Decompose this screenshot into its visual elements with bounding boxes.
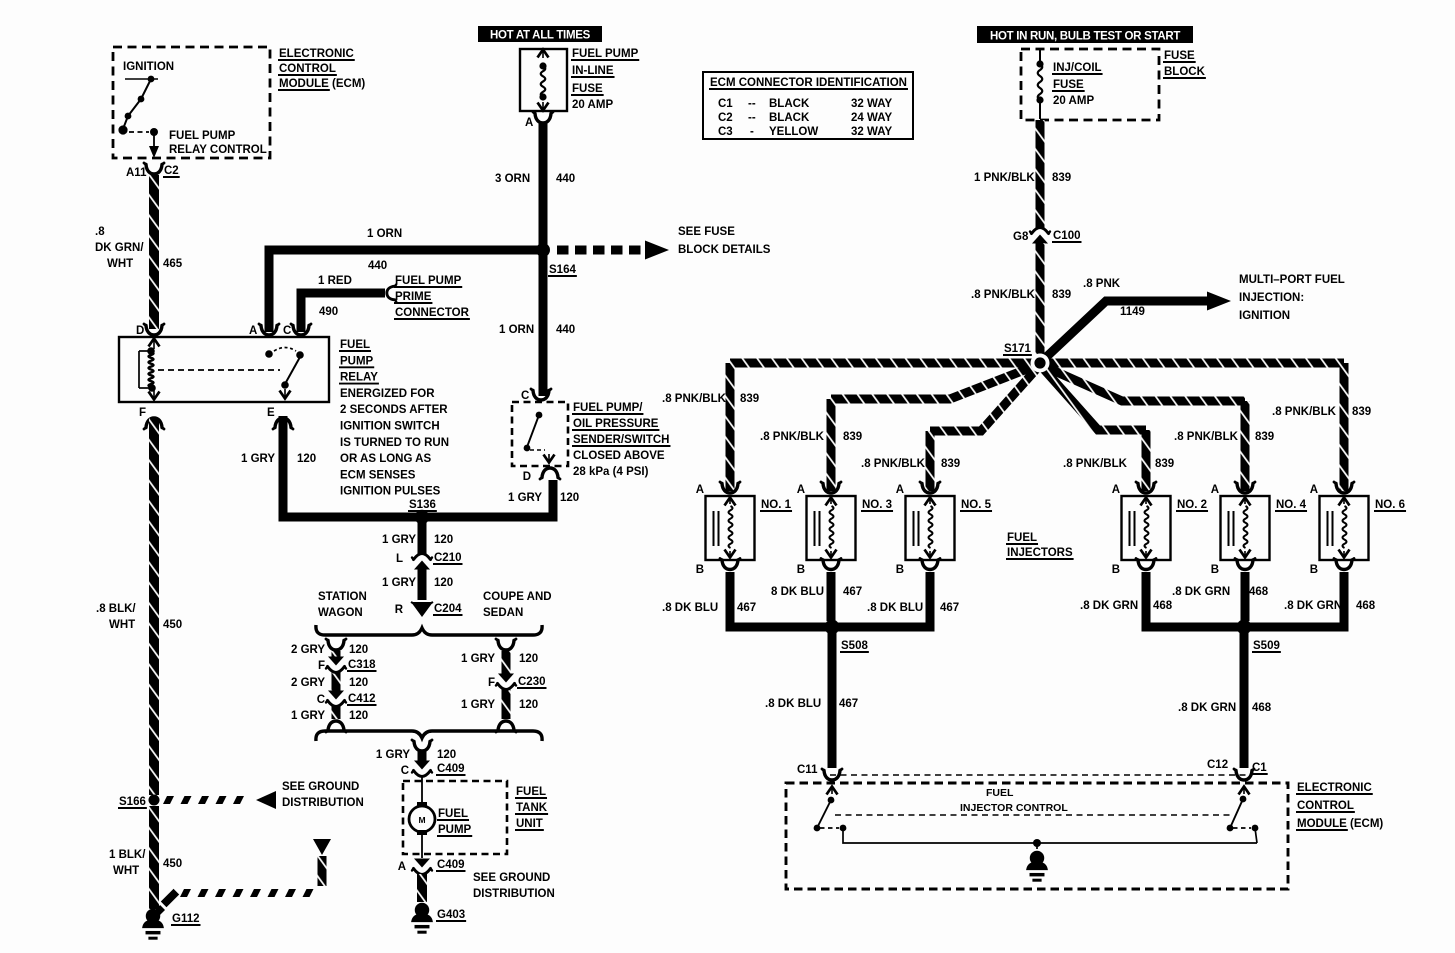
svg-text:S136: S136 — [409, 499, 436, 511]
svg-text:A: A — [696, 484, 704, 496]
svg-text:HOT IN RUN, BULB TEST OR START: HOT IN RUN, BULB TEST OR START — [990, 31, 1180, 43]
svg-text:1 GRY: 1 GRY — [291, 710, 325, 722]
svg-text:440: 440 — [556, 324, 575, 336]
svg-text:INJECTORS: INJECTORS — [1007, 547, 1073, 559]
svg-text:1 GRY: 1 GRY — [382, 534, 416, 546]
svg-text:STATION: STATION — [318, 591, 367, 603]
svg-text:PUMP: PUMP — [438, 824, 472, 836]
svg-text:467: 467 — [843, 586, 862, 598]
svg-text:839: 839 — [1352, 406, 1371, 418]
svg-text:FUSE: FUSE — [572, 83, 603, 95]
svg-text:.8 PNK: .8 PNK — [1083, 278, 1121, 290]
svg-text:468: 468 — [1356, 600, 1376, 612]
svg-text:NO. 2: NO. 2 — [1177, 499, 1207, 511]
svg-text:BLOCK DETAILS: BLOCK DETAILS — [678, 244, 771, 256]
svg-text:839: 839 — [740, 393, 759, 405]
svg-text:839: 839 — [941, 458, 960, 470]
svg-text:WHT: WHT — [109, 619, 135, 631]
svg-text:B: B — [1112, 564, 1120, 576]
svg-text:32 WAY: 32 WAY — [851, 98, 892, 110]
svg-text:NO. 4: NO. 4 — [1276, 499, 1307, 511]
svg-text:1 ORN: 1 ORN — [367, 228, 402, 240]
svg-text:120: 120 — [519, 653, 538, 665]
svg-text:490: 490 — [319, 306, 338, 318]
svg-text:INJECTION:: INJECTION: — [1239, 292, 1304, 304]
svg-text:SEE GROUND: SEE GROUND — [282, 781, 359, 793]
svg-text:20 AMP: 20 AMP — [572, 99, 613, 111]
svg-text:MODULE: MODULE — [279, 78, 329, 90]
svg-text:D: D — [136, 325, 144, 337]
svg-text:COUPE AND: COUPE AND — [483, 591, 552, 603]
svg-text:BLOCK: BLOCK — [1164, 66, 1206, 78]
svg-text:1 GRY: 1 GRY — [376, 749, 410, 761]
svg-text:IN-LINE: IN-LINE — [572, 65, 614, 77]
svg-text:2 GRY: 2 GRY — [291, 677, 325, 689]
svg-text:CONTROL: CONTROL — [279, 63, 336, 75]
svg-text:8 DK BLU: 8 DK BLU — [771, 586, 824, 598]
svg-text:MULTI–PORT FUEL: MULTI–PORT FUEL — [1239, 274, 1345, 286]
svg-text:ECM CONNECTOR IDENTIFICATION: ECM CONNECTOR IDENTIFICATION — [710, 77, 907, 89]
svg-text:FUEL PUMP: FUEL PUMP — [572, 48, 639, 60]
svg-text:120: 120 — [349, 677, 368, 689]
svg-text:RELAY: RELAY — [340, 372, 378, 384]
svg-text:.8 PNK/BLK: .8 PNK/BLK — [1272, 406, 1337, 418]
svg-text:B: B — [1310, 564, 1318, 576]
svg-text:G8: G8 — [1013, 231, 1029, 243]
svg-text:E: E — [267, 407, 275, 419]
svg-text:S508: S508 — [841, 640, 868, 652]
svg-text:BLACK: BLACK — [769, 112, 810, 124]
svg-text:.8 PNK/BLK: .8 PNK/BLK — [760, 431, 825, 443]
svg-text:1 GRY: 1 GRY — [241, 453, 275, 465]
svg-text:NO. 1: NO. 1 — [761, 499, 792, 511]
svg-text:C12: C12 — [1207, 759, 1228, 771]
svg-text:839: 839 — [843, 431, 862, 443]
svg-text:WHT: WHT — [113, 865, 139, 877]
svg-text:FUEL PUMP: FUEL PUMP — [395, 275, 462, 287]
svg-text:S171: S171 — [1004, 343, 1031, 355]
svg-text:FUEL: FUEL — [986, 787, 1014, 799]
svg-text:.8 PNK/BLK: .8 PNK/BLK — [1063, 458, 1128, 470]
svg-text:IGNITION SWITCH: IGNITION SWITCH — [340, 421, 440, 433]
svg-text:(ECM): (ECM) — [332, 78, 365, 90]
svg-text:F: F — [318, 660, 325, 672]
svg-text:IS TURNED TO RUN: IS TURNED TO RUN — [340, 437, 449, 449]
svg-text:ECM SENSES: ECM SENSES — [340, 469, 416, 481]
svg-text:.8 PNK/BLK: .8 PNK/BLK — [662, 393, 727, 405]
svg-text:NO. 5: NO. 5 — [961, 499, 992, 511]
svg-text:--: -- — [748, 112, 756, 124]
svg-text:C11: C11 — [797, 764, 818, 776]
svg-text:C3: C3 — [718, 126, 733, 138]
svg-text:.8 DK BLU: .8 DK BLU — [662, 602, 718, 614]
svg-text:INJECTOR CONTROL: INJECTOR CONTROL — [960, 802, 1068, 814]
svg-text:OIL PRESSURE: OIL PRESSURE — [573, 418, 659, 430]
svg-text:FUEL PUMP: FUEL PUMP — [169, 130, 236, 142]
svg-text:.8 PNK/BLK: .8 PNK/BLK — [861, 458, 926, 470]
svg-text:SENDER/SWITCH: SENDER/SWITCH — [573, 434, 669, 446]
svg-text:TANK: TANK — [516, 802, 548, 814]
svg-text:24 WAY: 24 WAY — [851, 112, 892, 124]
svg-text:WAGON: WAGON — [318, 607, 363, 619]
svg-text:C: C — [283, 325, 291, 337]
svg-text:1 GRY: 1 GRY — [461, 653, 495, 665]
svg-text:A: A — [1211, 484, 1219, 496]
svg-text:1 GRY: 1 GRY — [508, 492, 542, 504]
svg-text:120: 120 — [434, 577, 453, 589]
svg-text:FUSE: FUSE — [1053, 79, 1084, 91]
svg-text:468: 468 — [1153, 600, 1173, 612]
svg-text:2 SECONDS AFTER: 2 SECONDS AFTER — [340, 404, 448, 416]
svg-text:C2: C2 — [164, 165, 179, 177]
svg-text:A: A — [1112, 484, 1120, 496]
svg-text:SEE FUSE: SEE FUSE — [678, 226, 735, 238]
svg-text:120: 120 — [437, 749, 456, 761]
svg-text:C100: C100 — [1053, 230, 1081, 242]
svg-text:FUSE: FUSE — [1164, 50, 1195, 62]
svg-text:.8 DK GRN: .8 DK GRN — [1172, 586, 1230, 598]
svg-text:467: 467 — [839, 698, 858, 710]
svg-text:467: 467 — [737, 602, 756, 614]
svg-text:1149: 1149 — [1120, 306, 1145, 318]
svg-text:FUEL: FUEL — [438, 808, 468, 820]
svg-text:467: 467 — [940, 602, 959, 614]
svg-text:468: 468 — [1249, 586, 1269, 598]
svg-text:28 kPa (4 PSI): 28 kPa (4 PSI) — [573, 466, 649, 478]
svg-text:C412: C412 — [348, 693, 376, 705]
svg-text:1 GRY: 1 GRY — [382, 577, 416, 589]
svg-text:.8 DK BLU: .8 DK BLU — [765, 698, 821, 710]
svg-text:INJ/COIL: INJ/COIL — [1053, 62, 1102, 74]
svg-text:S166: S166 — [119, 796, 146, 808]
svg-text:450: 450 — [163, 858, 182, 870]
svg-text:120: 120 — [434, 534, 453, 546]
svg-text:.8 PNK/BLK: .8 PNK/BLK — [1174, 431, 1239, 443]
svg-text:IGNITION: IGNITION — [123, 61, 174, 73]
svg-text:IGNITION PULSES: IGNITION PULSES — [340, 486, 441, 498]
svg-text:B: B — [896, 564, 904, 576]
svg-text:1 PNK/BLK: 1 PNK/BLK — [974, 172, 1035, 184]
svg-text:A11: A11 — [126, 167, 147, 179]
svg-text:IGNITION: IGNITION — [1239, 310, 1290, 322]
svg-text:DISTRIBUTION: DISTRIBUTION — [282, 797, 364, 809]
svg-text:DK GRN/: DK GRN/ — [95, 242, 144, 254]
svg-text:RELAY CONTROL: RELAY CONTROL — [169, 144, 267, 156]
svg-text:1 RED: 1 RED — [318, 275, 352, 287]
svg-text:ELECTRONIC: ELECTRONIC — [279, 48, 354, 60]
svg-text:M: M — [418, 815, 425, 825]
svg-text:120: 120 — [349, 710, 368, 722]
svg-text:C318: C318 — [348, 659, 376, 671]
svg-text:C: C — [521, 390, 529, 402]
svg-text:1 GRY: 1 GRY — [461, 699, 495, 711]
svg-text:PRIME: PRIME — [395, 291, 432, 303]
svg-text:S509: S509 — [1253, 640, 1280, 652]
svg-text:839: 839 — [1052, 289, 1071, 301]
svg-text:S164: S164 — [549, 264, 576, 276]
svg-text:C210: C210 — [434, 552, 462, 564]
svg-text:B: B — [1211, 564, 1219, 576]
svg-text:L: L — [396, 553, 403, 565]
svg-text:.8 DK GRN: .8 DK GRN — [1284, 600, 1342, 612]
svg-text:CONTROL: CONTROL — [1297, 800, 1354, 812]
svg-text:440: 440 — [368, 260, 387, 272]
svg-text:120: 120 — [297, 453, 316, 465]
svg-text:120: 120 — [519, 699, 538, 711]
svg-text:A: A — [249, 325, 257, 337]
svg-text:F: F — [488, 677, 495, 689]
svg-text:B: B — [696, 564, 704, 576]
svg-text:UNIT: UNIT — [516, 818, 543, 830]
svg-text:2 GRY: 2 GRY — [291, 644, 325, 656]
svg-text:-: - — [750, 126, 754, 138]
svg-text:.8 BLK/: .8 BLK/ — [96, 603, 136, 615]
svg-text:C: C — [317, 694, 325, 706]
svg-text:.8 DK GRN: .8 DK GRN — [1080, 600, 1138, 612]
svg-text:SEDAN: SEDAN — [483, 607, 523, 619]
svg-text:839: 839 — [1255, 431, 1274, 443]
svg-text:C: C — [401, 765, 409, 777]
svg-text:C2: C2 — [718, 112, 733, 124]
svg-text:MODULE: MODULE — [1297, 818, 1347, 830]
svg-text:D: D — [523, 471, 531, 483]
svg-text:BLACK: BLACK — [769, 98, 810, 110]
svg-text:CLOSED ABOVE: CLOSED ABOVE — [573, 450, 665, 462]
svg-text:OR AS LONG AS: OR AS LONG AS — [340, 453, 431, 465]
svg-text:A: A — [525, 117, 533, 129]
svg-text:.8 DK GRN: .8 DK GRN — [1178, 702, 1236, 714]
svg-text:(ECM): (ECM) — [1350, 818, 1383, 830]
svg-text:A: A — [398, 861, 406, 873]
svg-text:.8 PNK/BLK: .8 PNK/BLK — [971, 289, 1036, 301]
svg-text:3 ORN: 3 ORN — [495, 173, 530, 185]
svg-text:NO. 6: NO. 6 — [1375, 499, 1405, 511]
svg-text:B: B — [797, 564, 805, 576]
svg-text:FUEL: FUEL — [340, 339, 370, 351]
svg-text:F: F — [139, 407, 146, 419]
svg-text:C204: C204 — [434, 603, 462, 615]
svg-text:--: -- — [748, 98, 756, 110]
svg-text:839: 839 — [1052, 172, 1071, 184]
svg-text:C409: C409 — [437, 859, 465, 871]
svg-text:HOT AT ALL TIMES: HOT AT ALL TIMES — [490, 30, 591, 42]
svg-text:839: 839 — [1155, 458, 1174, 470]
svg-text:C230: C230 — [518, 676, 546, 688]
svg-text:.8 DK BLU: .8 DK BLU — [867, 602, 923, 614]
svg-text:DISTRIBUTION: DISTRIBUTION — [473, 888, 555, 900]
svg-text:SEE GROUND: SEE GROUND — [473, 872, 550, 884]
svg-text:450: 450 — [163, 619, 182, 631]
svg-text:CONNECTOR: CONNECTOR — [395, 307, 470, 319]
svg-text:R: R — [395, 604, 404, 616]
svg-text:C1: C1 — [718, 98, 733, 110]
svg-text:1 BLK/: 1 BLK/ — [109, 849, 146, 861]
svg-text:ENERGIZED FOR: ENERGIZED FOR — [340, 388, 435, 400]
svg-text:YELLOW: YELLOW — [769, 126, 818, 138]
svg-text:G403: G403 — [437, 909, 465, 921]
svg-text:440: 440 — [556, 173, 575, 185]
svg-text:20 AMP: 20 AMP — [1053, 95, 1094, 107]
svg-text:120: 120 — [560, 492, 579, 504]
svg-text:FUEL: FUEL — [516, 786, 546, 798]
svg-text:A: A — [797, 484, 805, 496]
svg-text:ELECTRONIC: ELECTRONIC — [1297, 782, 1372, 794]
svg-text:A: A — [1310, 484, 1318, 496]
svg-text:FUEL: FUEL — [1007, 532, 1037, 544]
svg-text:NO. 3: NO. 3 — [862, 499, 892, 511]
svg-text:C409: C409 — [437, 763, 465, 775]
svg-text:FUEL PUMP/: FUEL PUMP/ — [573, 402, 643, 414]
svg-text:G112: G112 — [172, 913, 200, 925]
svg-text:PUMP: PUMP — [340, 355, 374, 367]
svg-text:468: 468 — [1252, 702, 1272, 714]
svg-text:.8: .8 — [95, 226, 105, 238]
svg-text:WHT: WHT — [107, 258, 133, 270]
svg-text:120: 120 — [349, 644, 368, 656]
svg-text:465: 465 — [163, 258, 183, 270]
svg-text:32 WAY: 32 WAY — [851, 126, 892, 138]
svg-text:A: A — [896, 484, 904, 496]
svg-text:1 ORN: 1 ORN — [499, 324, 534, 336]
